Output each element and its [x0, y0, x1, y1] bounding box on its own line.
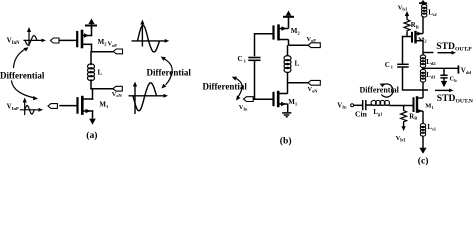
svg-text:Lg1: Lg1 [373, 109, 383, 116]
power VDD symbol (c) [419, 0, 427, 5]
power VDD symbol (b) [283, 11, 294, 28]
inductor L (b) [287, 45, 289, 56]
svg-text:Differential: Differential [147, 68, 192, 78]
ground (b) 3-bar [282, 113, 291, 117]
svg-text:Vb1: Vb1 [396, 135, 406, 143]
resistor RB bottom [401, 110, 407, 124]
port VoP (b) [308, 43, 320, 48]
svg-text:M2: M2 [418, 36, 426, 43]
wire VoN to M1 drain [92, 89, 94, 99]
svg-text:Differential: Differential [0, 71, 45, 81]
svg-text:RB: RB [411, 22, 419, 29]
arrow differential (b) [235, 78, 243, 98]
arrow up to Vb1 [406, 14, 408, 19]
capacitor Cin [363, 100, 366, 110]
svg-text:VInN: VInN [7, 36, 20, 46]
wire Cin to Lg1 [366, 104, 372, 106]
waveform VoN [129, 83, 166, 114]
ground (a) arrow style [89, 119, 96, 125]
transistor M2 (PMOS) [77, 28, 91, 52]
Vdd terminal bar [457, 65, 459, 73]
transistor M1 (NMOS) [78, 97, 93, 118]
arrow differential up [14, 49, 27, 68]
inductor Ls2 [422, 4, 427, 17]
svg-text:M1: M1 [99, 101, 109, 109]
input terminal circle [351, 104, 354, 107]
resistor RB bottom drop [403, 106, 405, 110]
capacitor Cb [443, 68, 445, 75]
svg-text:L: L [98, 69, 103, 77]
svg-text:STDOUT,N: STDOUT,N [437, 93, 474, 105]
svg-text:Vdd: Vdd [461, 67, 472, 75]
port VoN (b) [308, 80, 320, 85]
port VInN [50, 38, 59, 43]
svg-text:VInP: VInP [7, 102, 19, 111]
node VoP wire (b) [289, 44, 309, 46]
transistor M1 (b) NMOS [274, 91, 288, 113]
wire RB to M2 gate [406, 32, 408, 37]
svg-text:M2: M2 [98, 38, 108, 46]
svg-text:VoN: VoN [112, 91, 123, 98]
svg-text:VoP: VoP [108, 41, 118, 48]
inductor Ls1 [422, 114, 424, 125]
svg-text:(b): (b) [280, 135, 292, 146]
svg-text:STDOUT,P: STDOUT,P [436, 41, 472, 53]
node VInP sine source [21, 101, 41, 115]
inductor L (a) [90, 52, 92, 65]
circular arrow (c) [381, 84, 393, 97]
svg-text:Cb: Cb [450, 76, 458, 83]
wire VIn to M1 gate [253, 98, 273, 100]
arrow differential middle [163, 58, 172, 85]
wire gate M1 [60, 105, 77, 107]
wire C1 to VIn node [254, 61, 256, 99]
waveform VoP [132, 23, 167, 52]
port VoN [113, 86, 122, 91]
inductor Ld2 [422, 53, 424, 56]
svg-text:C1: C1 [385, 61, 394, 69]
power VDD symbol (a) [86, 19, 96, 29]
svg-text:L: L [295, 60, 300, 68]
svg-text:Ls1: Ls1 [427, 124, 436, 131]
svg-text:RB: RB [409, 113, 417, 120]
ground M1 (c) arrow style [419, 148, 426, 154]
svg-text:Ld2: Ld2 [426, 59, 436, 66]
arrow down to Vb1 bottom [403, 123, 405, 127]
port VIn (b) [244, 97, 254, 102]
svg-text:VoP: VoP [307, 36, 317, 43]
capacitor C1 (b) [248, 58, 260, 61]
svg-text:VIn: VIn [337, 102, 347, 109]
svg-text:Ls2: Ls2 [428, 10, 437, 17]
svg-text:Ld1: Ld1 [426, 72, 436, 79]
wire gate M1 (c) [390, 105, 414, 107]
svg-text:VIn: VIn [239, 104, 248, 111]
svg-text:(c): (c) [418, 155, 429, 165]
svg-text:(a): (a) [86, 130, 97, 141]
port VInP [48, 104, 57, 109]
capacitor C1 (c) [397, 64, 409, 67]
svg-text:C1: C1 [238, 55, 247, 63]
node Vdd wire [423, 67, 458, 68]
node VoN wire (b) [288, 82, 309, 84]
arrow STDOUTN [435, 89, 451, 91]
inductor Lg1 [369, 104, 390, 106]
svg-text:M2: M2 [291, 27, 301, 35]
wire port to M2 gate [60, 39, 76, 41]
ground Cb [441, 81, 447, 87]
transistor M1 (c) NMOS [414, 96, 424, 113]
node VoN wire [91, 88, 113, 90]
transistor M2 (c) PMOS [412, 16, 423, 52]
wire Ld1 to M1 drain [422, 81, 424, 98]
wire Lg1 to gate [389, 105, 392, 107]
svg-text:Vb1: Vb1 [398, 5, 408, 12]
wire gate to rail corner [403, 37, 412, 65]
node VInN sine source [24, 30, 43, 46]
svg-text:M1: M1 [425, 102, 433, 109]
wire M2 gate to rail [255, 34, 274, 57]
svg-text:Cin: Cin [355, 109, 368, 118]
port VoP [113, 49, 122, 54]
arrow differential down [12, 81, 36, 98]
inductor Ld1 [422, 68, 424, 70]
transistor M2 (b) PMOS [274, 24, 289, 45]
wire C1 to OUTN node [403, 67, 429, 90]
resistor RB top [404, 19, 410, 33]
node STDOUTP wire and arrow [423, 52, 434, 54]
svg-text:VoN: VoN [308, 86, 319, 93]
wire circle to Cin [354, 104, 362, 106]
svg-text:M1: M1 [288, 98, 298, 106]
node VoP wire [92, 51, 114, 53]
